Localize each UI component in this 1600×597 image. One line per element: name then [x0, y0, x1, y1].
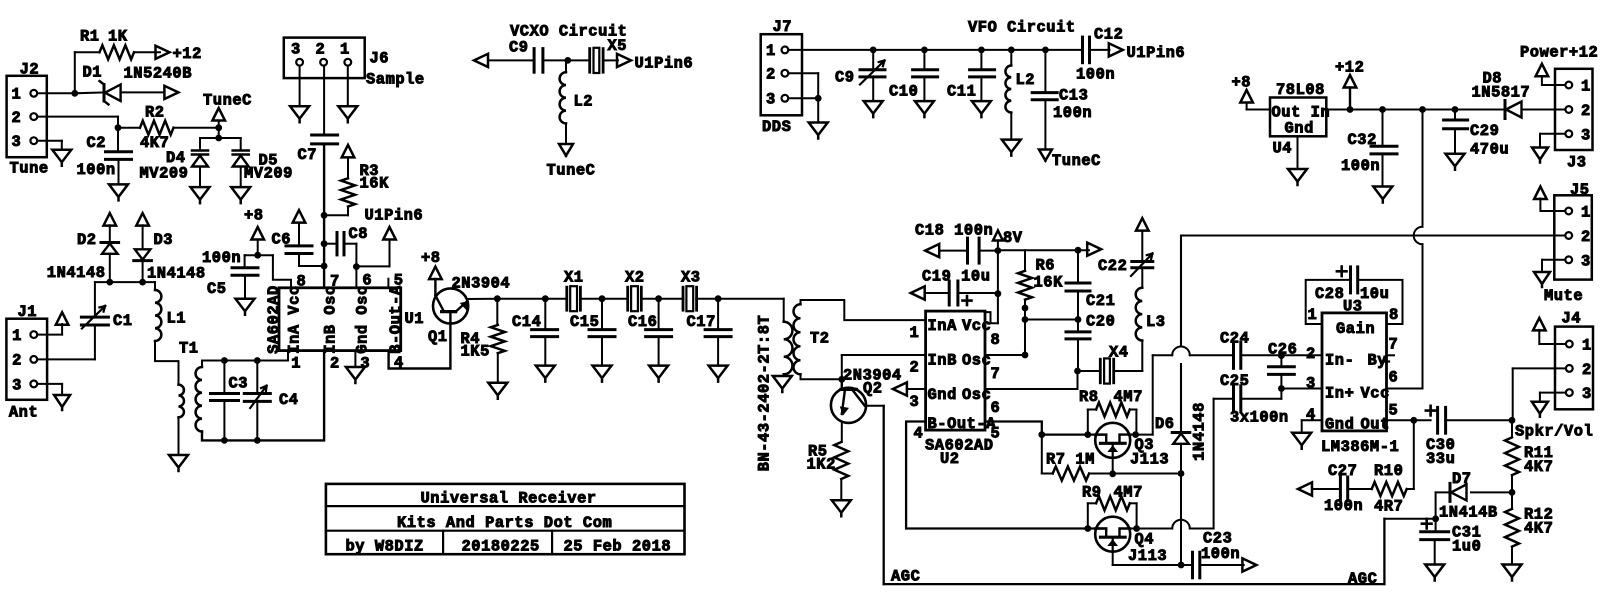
svg-text:16K: 16K — [360, 175, 390, 193]
svg-text:J7: J7 — [773, 18, 793, 36]
wire J1 pin2 — [37, 358, 95, 360]
U1 pin3 ground — [354, 351, 356, 367]
wire filter main line — [497, 298, 567, 300]
svg-text:16K: 16K — [1034, 274, 1064, 292]
svg-text:L2: L2 — [574, 93, 594, 111]
net arrow +12 — [156, 46, 170, 59]
capacitor C7 — [312, 134, 338, 137]
svg-text:7: 7 — [330, 272, 340, 290]
svg-text:3: 3 — [12, 133, 22, 151]
capacitor C26 — [1280, 356, 1282, 367]
capacitor C10 — [923, 50, 925, 70]
svg-text:J4: J4 — [1562, 310, 1582, 328]
capacitor C15 — [601, 299, 603, 330]
capacitor C29 470u — [1454, 110, 1456, 121]
voltage regulator U4 78L08 — [1270, 98, 1326, 137]
resistor R6 16K — [1024, 250, 1026, 271]
svg-text:R1: R1 — [80, 28, 100, 46]
net arrow above R3 — [342, 145, 355, 158]
hop riser over mute line — [1414, 227, 1423, 245]
wire U1 pin4 to Q1 base — [389, 312, 451, 369]
wire T2 secondary bottom to Q2 base node — [801, 374, 842, 379]
svg-text:1: 1 — [291, 355, 301, 373]
inductor L2 VCXO — [565, 60, 567, 72]
junction TuneC node — [215, 124, 222, 131]
wire R7 to gate line — [1089, 473, 1181, 475]
junction pin5 node — [1038, 431, 1045, 438]
ground J6 pin3 — [290, 106, 309, 122]
svg-text:C9: C9 — [509, 39, 529, 57]
wire X1 to X2 — [581, 298, 627, 300]
svg-text:X2: X2 — [625, 269, 645, 287]
svg-text:Q1: Q1 — [428, 328, 448, 346]
wire C9 to X5 — [543, 59, 588, 61]
svg-text:X1: X1 — [564, 269, 584, 287]
svg-text:1N4148: 1N4148 — [147, 265, 206, 283]
wire U3 out — [1387, 419, 1431, 421]
svg-text:C16: C16 — [628, 313, 657, 331]
svg-text:C4: C4 — [279, 391, 299, 409]
crystal X4 — [1078, 370, 1101, 372]
ground below R5 — [832, 500, 851, 516]
resistor R7 1M — [1053, 467, 1089, 481]
svg-text:J1: J1 — [18, 303, 38, 321]
ground below C10 — [915, 101, 934, 117]
svg-text:J5: J5 — [1570, 181, 1590, 199]
ground below C15 — [593, 366, 612, 382]
wire T1 secondary bottom to U1 pin2 — [202, 351, 324, 441]
wire gate line to AGC node — [1180, 474, 1182, 566]
junction AGC gate node — [1178, 562, 1185, 569]
8V rail wire — [997, 241, 999, 324]
svg-text:78L08: 78L08 — [1276, 81, 1325, 99]
wire X3 to T2 — [696, 298, 784, 300]
ground below C11 — [972, 101, 991, 117]
svg-text:Sample: Sample — [366, 71, 425, 89]
svg-text:U1Pin6: U1Pin6 — [635, 55, 694, 73]
wire +8 to Q1 collector — [434, 279, 436, 296]
svg-text:D2: D2 — [77, 231, 97, 249]
wire R1 to +12 arrow — [134, 51, 160, 53]
svg-text:3: 3 — [12, 377, 22, 395]
svg-text:J6: J6 — [370, 50, 390, 68]
connector J1 Ant — [6, 319, 47, 400]
svg-text:R2: R2 — [145, 104, 165, 122]
svg-text:C9: C9 — [835, 69, 855, 87]
svg-text:2: 2 — [1582, 361, 1592, 379]
wire mute riser — [1180, 236, 1182, 347]
connector J4 Spkr/Vol — [1555, 327, 1593, 410]
inductor L2 VFO — [1010, 50, 1012, 66]
capacitor C31 1u0 — [1435, 519, 1437, 532]
wire J1 pin3 to arrow — [37, 383, 62, 385]
svg-text:C21: C21 — [1086, 292, 1115, 310]
svg-text:MV209: MV209 — [140, 165, 189, 183]
wire U4 gnd to ground — [1297, 136, 1299, 169]
wire L3 to C22 — [1141, 268, 1143, 288]
svg-text:T2: T2 — [810, 330, 830, 348]
svg-text:100n: 100n — [1341, 157, 1380, 175]
net arrow right of R6 node — [1087, 243, 1101, 256]
svg-text:100n: 100n — [1201, 545, 1240, 563]
ground below C29 — [1446, 154, 1465, 170]
svg-text:L1: L1 — [167, 310, 187, 328]
capacitor C13 100n — [1044, 50, 1046, 93]
junction pin6 node — [353, 263, 360, 270]
svg-text:6: 6 — [991, 399, 1001, 417]
op-amp U2 SA602AD product detector — [926, 311, 985, 430]
capacitor C14 — [544, 299, 546, 330]
transistor Q2 2N3904 — [841, 379, 843, 389]
wire Q2 collector to AGC bus — [865, 405, 884, 407]
svg-text:Q4: Q4 — [1135, 531, 1155, 549]
svg-text:C1: C1 — [113, 312, 133, 330]
wire C2 to ground — [118, 159, 120, 184]
wire Q4 out with hop to C25 riser — [1130, 528, 1172, 530]
svg-text:3: 3 — [766, 91, 776, 109]
wire X2 to X3 — [642, 298, 683, 300]
svg-text:100n: 100n — [1076, 66, 1115, 84]
svg-text:TuneC: TuneC — [547, 162, 596, 180]
svg-text:1N4148: 1N4148 — [1191, 402, 1209, 461]
capacitor C16 — [658, 299, 660, 330]
net arrow U1Pin6 VFO — [1109, 43, 1123, 56]
svg-text:2: 2 — [330, 355, 340, 373]
svg-text:7: 7 — [991, 365, 1001, 383]
svg-text:TuneC: TuneC — [203, 92, 252, 110]
svg-text:4M7: 4M7 — [1114, 484, 1143, 502]
inductor L1 — [154, 282, 156, 290]
svg-text:4K7: 4K7 — [1524, 520, 1553, 538]
junction R4 — [494, 295, 501, 302]
svg-text:InB: InB — [928, 352, 957, 370]
wire +8 node to U1 pin8 — [273, 255, 291, 288]
svg-text:3: 3 — [291, 41, 301, 59]
ground below C5 — [236, 299, 255, 315]
crystal X2 — [626, 287, 629, 310]
down arrow J4 pin3 — [1532, 402, 1548, 417]
svg-text:Vcc: Vcc — [1361, 385, 1390, 403]
svg-text:D1: D1 — [83, 64, 103, 82]
svg-text:Out: Out — [1361, 416, 1390, 434]
ground below R4 — [488, 383, 507, 399]
svg-text:Power+12: Power+12 — [1520, 43, 1598, 61]
wire node to R1 — [74, 52, 76, 93]
svg-text:by W8DIZ: by W8DIZ — [346, 538, 424, 556]
svg-text:2N3904: 2N3904 — [452, 275, 511, 293]
resistor R4 1K5 — [496, 299, 498, 325]
svg-text:Spkr/Vol: Spkr/Vol — [1515, 423, 1593, 441]
hop In- line over mute riser — [1172, 346, 1190, 355]
svg-text:5: 5 — [394, 271, 404, 289]
svg-text:1u0: 1u0 — [1452, 538, 1481, 556]
wire T1 primary to ground — [178, 417, 180, 455]
wire pin6 node to U1Pin6 arrow — [356, 265, 389, 267]
svg-text:25 Feb 2018: 25 Feb 2018 — [564, 538, 672, 556]
wire U2 pin6 to X4 — [985, 388, 1078, 390]
resistor R3 16K — [347, 157, 349, 178]
wire U2 pin2 line — [842, 354, 926, 356]
down arrow J3 pin3 — [1532, 148, 1548, 163]
svg-text:Gnd: Gnd — [928, 386, 957, 404]
capacitor C2 100n — [117, 128, 119, 152]
capacitor C6 — [298, 223, 300, 246]
down arrow J1 pin3 — [54, 395, 70, 410]
ground J2 pin3 — [52, 150, 71, 166]
op-amp U1 SA602AD mixer — [279, 288, 401, 351]
wire C24 to U3 In- — [1241, 354, 1322, 356]
junction R3 tap — [321, 212, 328, 219]
junction D7/C31 node — [1432, 515, 1439, 522]
down arrow J5 pin3 — [1534, 272, 1550, 287]
svg-text:100n: 100n — [1053, 104, 1092, 122]
wire X4 to L3 — [1114, 370, 1143, 372]
net arrow above D3 — [136, 213, 149, 226]
svg-text:C2: C2 — [87, 134, 107, 152]
capacitor C8 — [324, 243, 337, 245]
junction L2 tap — [564, 57, 571, 64]
wire J2 pin1 to node — [37, 92, 75, 94]
ground T2 primary — [773, 376, 792, 392]
resistor R9 4M7 — [1087, 503, 1089, 528]
wire to R2 — [118, 127, 140, 129]
wire U2 pin8 to 8V rail — [985, 312, 998, 323]
svg-text:C22: C22 — [1098, 257, 1127, 275]
capacitor C19 10u — [911, 286, 925, 299]
wire J4 pin3 to down arrow — [1540, 392, 1566, 394]
ground below C32 — [1373, 187, 1392, 203]
svg-text:1N414B: 1N414B — [1439, 504, 1498, 522]
varactor D4 MV209 — [199, 138, 201, 151]
wire J6 pin3 to ground — [299, 66, 301, 107]
svg-text:100n: 100n — [202, 249, 241, 267]
wire C7 down main column — [323, 144, 325, 288]
svg-text:Q2: Q2 — [863, 380, 883, 398]
svg-text:L3: L3 — [1146, 313, 1166, 331]
svg-text:C6: C6 — [272, 231, 292, 249]
capacitor C20 — [1077, 320, 1079, 332]
svg-text:R8: R8 — [1079, 388, 1099, 406]
capacitor C25 — [1232, 386, 1235, 412]
svg-text:1N5240B: 1N5240B — [124, 65, 193, 83]
svg-text:C14: C14 — [512, 313, 541, 331]
svg-text:AGC: AGC — [1348, 570, 1377, 588]
wire D4 to ground — [199, 167, 201, 188]
ground U3 — [1292, 433, 1311, 449]
svg-text:20180225: 20180225 — [462, 538, 540, 556]
capacitor C9 VCXO — [533, 49, 536, 73]
svg-text:Gnd: Gnd — [354, 324, 372, 353]
svg-text:R6: R6 — [1036, 257, 1056, 275]
svg-text:C20: C20 — [1086, 313, 1115, 331]
wire J5 pin3 to down arrow — [1542, 259, 1565, 261]
svg-text:DDS: DDS — [762, 118, 791, 136]
svg-text:D3: D3 — [154, 231, 174, 249]
svg-text:8V: 8V — [1003, 229, 1023, 247]
wire Q2 emitter to R5 — [841, 423, 843, 442]
wire R12 to ground — [1511, 547, 1513, 565]
wire osc node row — [1025, 319, 1078, 321]
ground below R12 — [1503, 565, 1522, 581]
net arrow left VCXO — [474, 54, 488, 67]
crystal X5 — [588, 49, 591, 73]
svg-text:1K5: 1K5 — [461, 343, 490, 361]
ground below L2 VFO — [1002, 140, 1021, 156]
net arrow above C22 — [1136, 218, 1149, 231]
svg-text:U1Pin6: U1Pin6 — [365, 207, 424, 225]
svg-text:1N5817: 1N5817 — [1472, 83, 1531, 101]
capacitor C24 — [1232, 342, 1235, 368]
wire mute line — [1181, 235, 1565, 237]
crystal X1 — [565, 287, 568, 310]
variable capacitor C22 — [1132, 260, 1153, 263]
diode D3 1N4148 — [142, 225, 144, 249]
transistor Q3 J113 — [1095, 423, 1130, 458]
op-amp U3 LM386M-1 — [1322, 313, 1387, 431]
variable capacitor C4 — [256, 361, 258, 394]
svg-text:1K: 1K — [108, 28, 128, 46]
svg-text:1: 1 — [12, 86, 22, 104]
wire C1 to J1 pin2 — [94, 325, 96, 359]
wire D7 to AGC node — [1436, 491, 1450, 493]
junction Q3 right — [1132, 431, 1139, 438]
wire C30 to Spkr node — [1446, 419, 1512, 421]
wire +12 rail — [1326, 109, 1505, 111]
wire AGC to D7/C31 node — [1384, 518, 1435, 520]
svg-text:C26: C26 — [1268, 341, 1297, 359]
wire U2 pin7 — [985, 354, 1025, 356]
svg-text:1: 1 — [1581, 78, 1591, 96]
svg-text:InB: InB — [322, 324, 340, 353]
svg-text:2: 2 — [766, 66, 776, 84]
svg-text:8: 8 — [991, 331, 1001, 349]
ground below C31 — [1425, 565, 1444, 581]
svg-text:J3: J3 — [1567, 153, 1587, 171]
svg-text:100n: 100n — [77, 161, 116, 179]
wire J4 pin2 to out node — [1513, 367, 1566, 369]
net arrow right of C23 — [1242, 558, 1256, 571]
svg-text:X4: X4 — [1109, 344, 1129, 362]
svg-text:2: 2 — [12, 109, 22, 127]
svg-text:AGC: AGC — [891, 568, 920, 586]
capacitor C30 33u — [1426, 406, 1436, 416]
wire C23 to arrow — [1200, 564, 1244, 566]
wire U2 pin5 to Q3 line — [985, 422, 1106, 435]
capacitor C5 100n — [232, 266, 258, 269]
net arrow U1Pin6 VCXO — [617, 54, 631, 67]
junction X4 node — [1074, 368, 1081, 375]
svg-text:R9: R9 — [1082, 484, 1102, 502]
down arrow TuneC VFO — [1039, 150, 1052, 161]
svg-text:Gnd: Gnd — [1325, 416, 1354, 434]
wire T2 primary to ground — [783, 374, 785, 376]
capacitor C27 100n — [1298, 482, 1312, 495]
capacitor C3 — [223, 361, 225, 394]
zener diode D1 1N5240B — [103, 85, 106, 102]
svg-text:3x100n: 3x100n — [1230, 409, 1289, 427]
ground J7 — [809, 123, 828, 139]
svg-text:T1: T1 — [179, 340, 199, 358]
wire D6 to gate line — [1180, 444, 1182, 474]
resistor R2 4K7 — [140, 121, 174, 135]
svg-text:1: 1 — [910, 324, 920, 342]
capacitor C17 — [717, 299, 719, 330]
diode D8 1N5817 — [1504, 101, 1507, 119]
svg-text:4M7: 4M7 — [1114, 388, 1143, 406]
svg-text:Mute: Mute — [1544, 287, 1583, 305]
svg-text:Ant: Ant — [9, 404, 38, 422]
svg-text:C27: C27 — [1328, 462, 1357, 480]
svg-text:1: 1 — [1308, 306, 1318, 324]
ground J6 pin1 — [338, 106, 357, 122]
svg-text:BN-43-2402-2T:8T: BN-43-2402-2T:8T — [756, 315, 774, 472]
ground U4 — [1288, 169, 1307, 185]
wire J2 pin3 to ground — [37, 140, 62, 142]
resistor R1 — [100, 45, 135, 59]
svg-text:J2: J2 — [20, 61, 40, 79]
wire C6 to column — [298, 254, 300, 267]
wire T1 secondary top to U1 pin1 — [202, 351, 288, 367]
wire C8 to pin6 node — [355, 244, 357, 288]
wire J7 pin2/pin3 to ground — [788, 72, 818, 74]
transistor Q1 2N3904 — [433, 288, 468, 323]
wire VFO rail — [788, 49, 1082, 51]
capacitor C23 100n — [1191, 552, 1194, 578]
node A junction — [71, 90, 78, 97]
svg-text:X5: X5 — [608, 37, 628, 55]
svg-text:4K7: 4K7 — [1524, 458, 1553, 476]
resistor R10 4R7 — [1348, 488, 1372, 490]
wire R6 to pin7 riser — [1024, 300, 1026, 355]
resistor R12 4K7 — [1505, 509, 1519, 547]
svg-text:Tune: Tune — [10, 160, 49, 178]
svg-text:B-Out-A: B-Out-A — [387, 285, 405, 354]
svg-text:3: 3 — [1581, 126, 1591, 144]
ground below C9 VFO — [864, 101, 883, 117]
svg-text:+8: +8 — [1232, 73, 1252, 91]
net arrow gnd U2 pin3 — [893, 382, 907, 395]
connector J5 Mute — [1554, 195, 1592, 279]
svg-text:R10: R10 — [1374, 462, 1403, 480]
wire U3 pin6 to +12 riser — [1387, 388, 1423, 390]
svg-text:1: 1 — [340, 41, 350, 59]
wire R2 to TuneC node — [174, 127, 219, 129]
junction C6 tap — [321, 263, 328, 270]
wire D8 to J3 pin2 — [1522, 109, 1566, 111]
svg-text:C12: C12 — [1094, 26, 1123, 44]
svg-text:2: 2 — [910, 359, 920, 377]
svg-text:J113: J113 — [1130, 451, 1169, 469]
U3 pin7 stub — [1387, 354, 1395, 356]
svg-text:U4: U4 — [1273, 140, 1293, 158]
wire arrow to C9 — [488, 59, 534, 61]
connector J6 Sample — [284, 38, 365, 79]
wire J1 pin1 to arrow — [37, 334, 62, 336]
connector J7 DDS — [761, 34, 802, 115]
svg-text:D6: D6 — [1155, 415, 1175, 433]
svg-text:Gain: Gain — [1336, 320, 1375, 338]
capacitor C21 — [1077, 250, 1079, 283]
wire arrow to U2 pin3 — [907, 388, 926, 390]
svg-text:InA: InA — [286, 324, 304, 354]
diode D2 1N4148 — [109, 225, 111, 242]
svg-text:C32: C32 — [1348, 131, 1377, 149]
svg-text:4K7: 4K7 — [140, 134, 169, 152]
junction Q4 right — [1133, 525, 1140, 532]
resistor R8 4M7 — [1087, 410, 1089, 435]
wire TuneC node down to varactor bar — [218, 121, 220, 139]
wire U2 pin4 to Q4 — [906, 422, 1106, 529]
